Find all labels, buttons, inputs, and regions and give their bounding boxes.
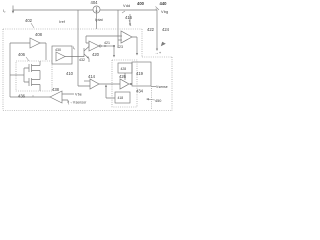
buffer U6 bbox=[50, 91, 62, 103]
comparator U3 bbox=[121, 31, 132, 43]
op-amp U2 bbox=[89, 41, 99, 51]
dashed chopper box bbox=[112, 60, 137, 107]
svg-text:V sense: V sense bbox=[156, 85, 168, 89]
leader lines bbox=[26, 7, 159, 101]
svg-text:428: 428 bbox=[121, 67, 127, 71]
wire current source drop bbox=[96, 13, 98, 29]
svg-text:434: 434 bbox=[136, 89, 144, 94]
svg-text:418: 418 bbox=[118, 96, 124, 100]
node bias arrow top-left bbox=[12, 6, 14, 12]
wire mirror gate link bbox=[23, 68, 25, 82]
wire U3 output bbox=[132, 37, 137, 53]
svg-text:400: 400 bbox=[137, 1, 145, 6]
capacitor box C2 bottom bbox=[115, 92, 130, 103]
svg-text:416: 416 bbox=[125, 15, 133, 20]
svg-text:V be: V be bbox=[75, 93, 82, 97]
svg-text:424: 424 bbox=[162, 27, 170, 32]
labels bbox=[3, 0, 170, 105]
dashed sensor boundary bbox=[151, 88, 153, 110]
wire U4 upper input bbox=[84, 80, 90, 82]
svg-text:419: 419 bbox=[136, 71, 144, 76]
wire op-amp U1 input bbox=[10, 42, 30, 44]
svg-text:432: 432 bbox=[79, 58, 85, 62]
node N2 bbox=[130, 83, 131, 84]
wire vdd stub x130 bbox=[129, 14, 131, 23]
arrowheads bbox=[12, 11, 166, 101]
svg-text:V dd: V dd bbox=[123, 4, 130, 8]
wire U2 feedback bbox=[86, 36, 122, 43]
wire Vsense out bbox=[151, 86, 156, 88]
svg-text:450: 450 bbox=[155, 99, 161, 103]
svg-text:421: 421 bbox=[104, 41, 110, 45]
wire top supply rail bbox=[13, 9, 157, 11]
wire U6 inputs bbox=[62, 94, 74, 103]
transistor M1 upper mirror bbox=[24, 61, 40, 80]
transistor Q1 bbox=[84, 44, 89, 62]
svg-text:(→V sensor: (→V sensor bbox=[68, 101, 87, 105]
svg-text:422: 422 bbox=[147, 27, 155, 32]
wire rail drop x118 bbox=[117, 10, 119, 46]
svg-text:438: 438 bbox=[52, 87, 60, 92]
svg-text:I ptat: I ptat bbox=[95, 18, 104, 22]
svg-text:V bg: V bg bbox=[161, 10, 168, 14]
dashed current mirror box bbox=[16, 61, 52, 91]
svg-text:→ +: → + bbox=[155, 50, 162, 55]
svg-text:402: 402 bbox=[25, 18, 33, 23]
wire U4 to U5 bbox=[99, 83, 120, 85]
current source I1 bbox=[93, 6, 100, 13]
wire comparator lower input bbox=[118, 39, 122, 41]
capacitor box C1 top bbox=[118, 63, 132, 73]
wire A1 output bbox=[65, 56, 84, 58]
svg-text:436: 436 bbox=[18, 94, 26, 99]
svg-text:410: 410 bbox=[66, 71, 74, 76]
svg-text:423: 423 bbox=[117, 45, 123, 49]
wire U1 output to mirror bbox=[40, 43, 46, 60]
op-amp U5 chopper bbox=[120, 79, 129, 89]
svg-text:426: 426 bbox=[119, 74, 127, 79]
svg-text:408: 408 bbox=[35, 32, 43, 37]
wire left riser x10 bbox=[9, 43, 11, 97]
wire U5 output bbox=[129, 83, 132, 85]
svg-text:404: 404 bbox=[91, 0, 99, 5]
svg-text:414: 414 bbox=[88, 74, 96, 79]
wire C1 link bbox=[124, 73, 126, 80]
svg-text:440: 440 bbox=[160, 1, 168, 6]
wire buffer output bbox=[10, 96, 50, 98]
svg-text:420: 420 bbox=[92, 52, 100, 57]
transistor M2 lower mirror bbox=[24, 78, 40, 91]
wire C2 link bbox=[106, 85, 115, 98]
op-amp U1 bbox=[30, 38, 40, 48]
op-amp U4 bbox=[90, 79, 99, 89]
wire node drop bbox=[113, 46, 115, 55]
dashed boundaries bbox=[3, 29, 172, 111]
wire output corner right bbox=[156, 10, 158, 48]
wire mirror gate feed bbox=[10, 74, 24, 76]
node N1 bbox=[113, 45, 114, 46]
dashed outer chip boundary bbox=[3, 29, 172, 111]
block 419 box bbox=[132, 62, 151, 86]
wire U2 output bbox=[102, 45, 115, 47]
svg-text:430: 430 bbox=[55, 48, 61, 52]
svg-text:406: 406 bbox=[18, 52, 26, 57]
amplifier A1 box bbox=[52, 46, 72, 64]
wire VBE riser x78 bbox=[78, 10, 90, 86]
svg-text:I ref: I ref bbox=[59, 20, 66, 24]
